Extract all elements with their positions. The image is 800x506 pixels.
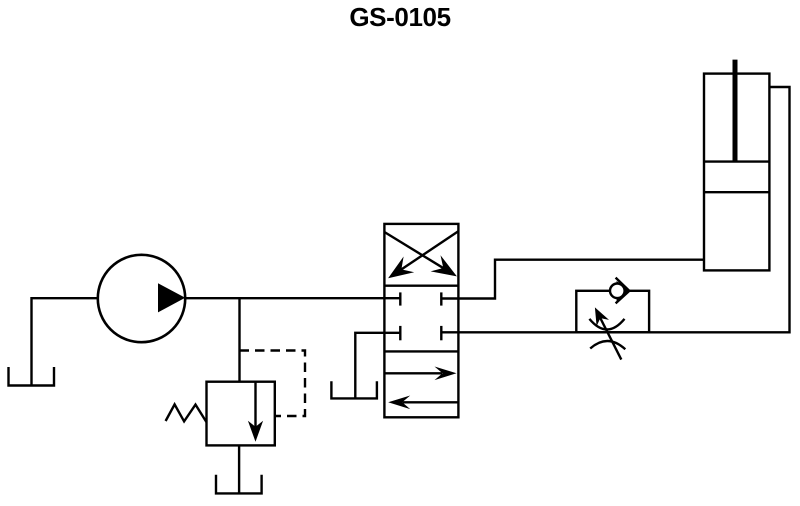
svg-text:GS-0105: GS-0105 — [349, 2, 450, 32]
